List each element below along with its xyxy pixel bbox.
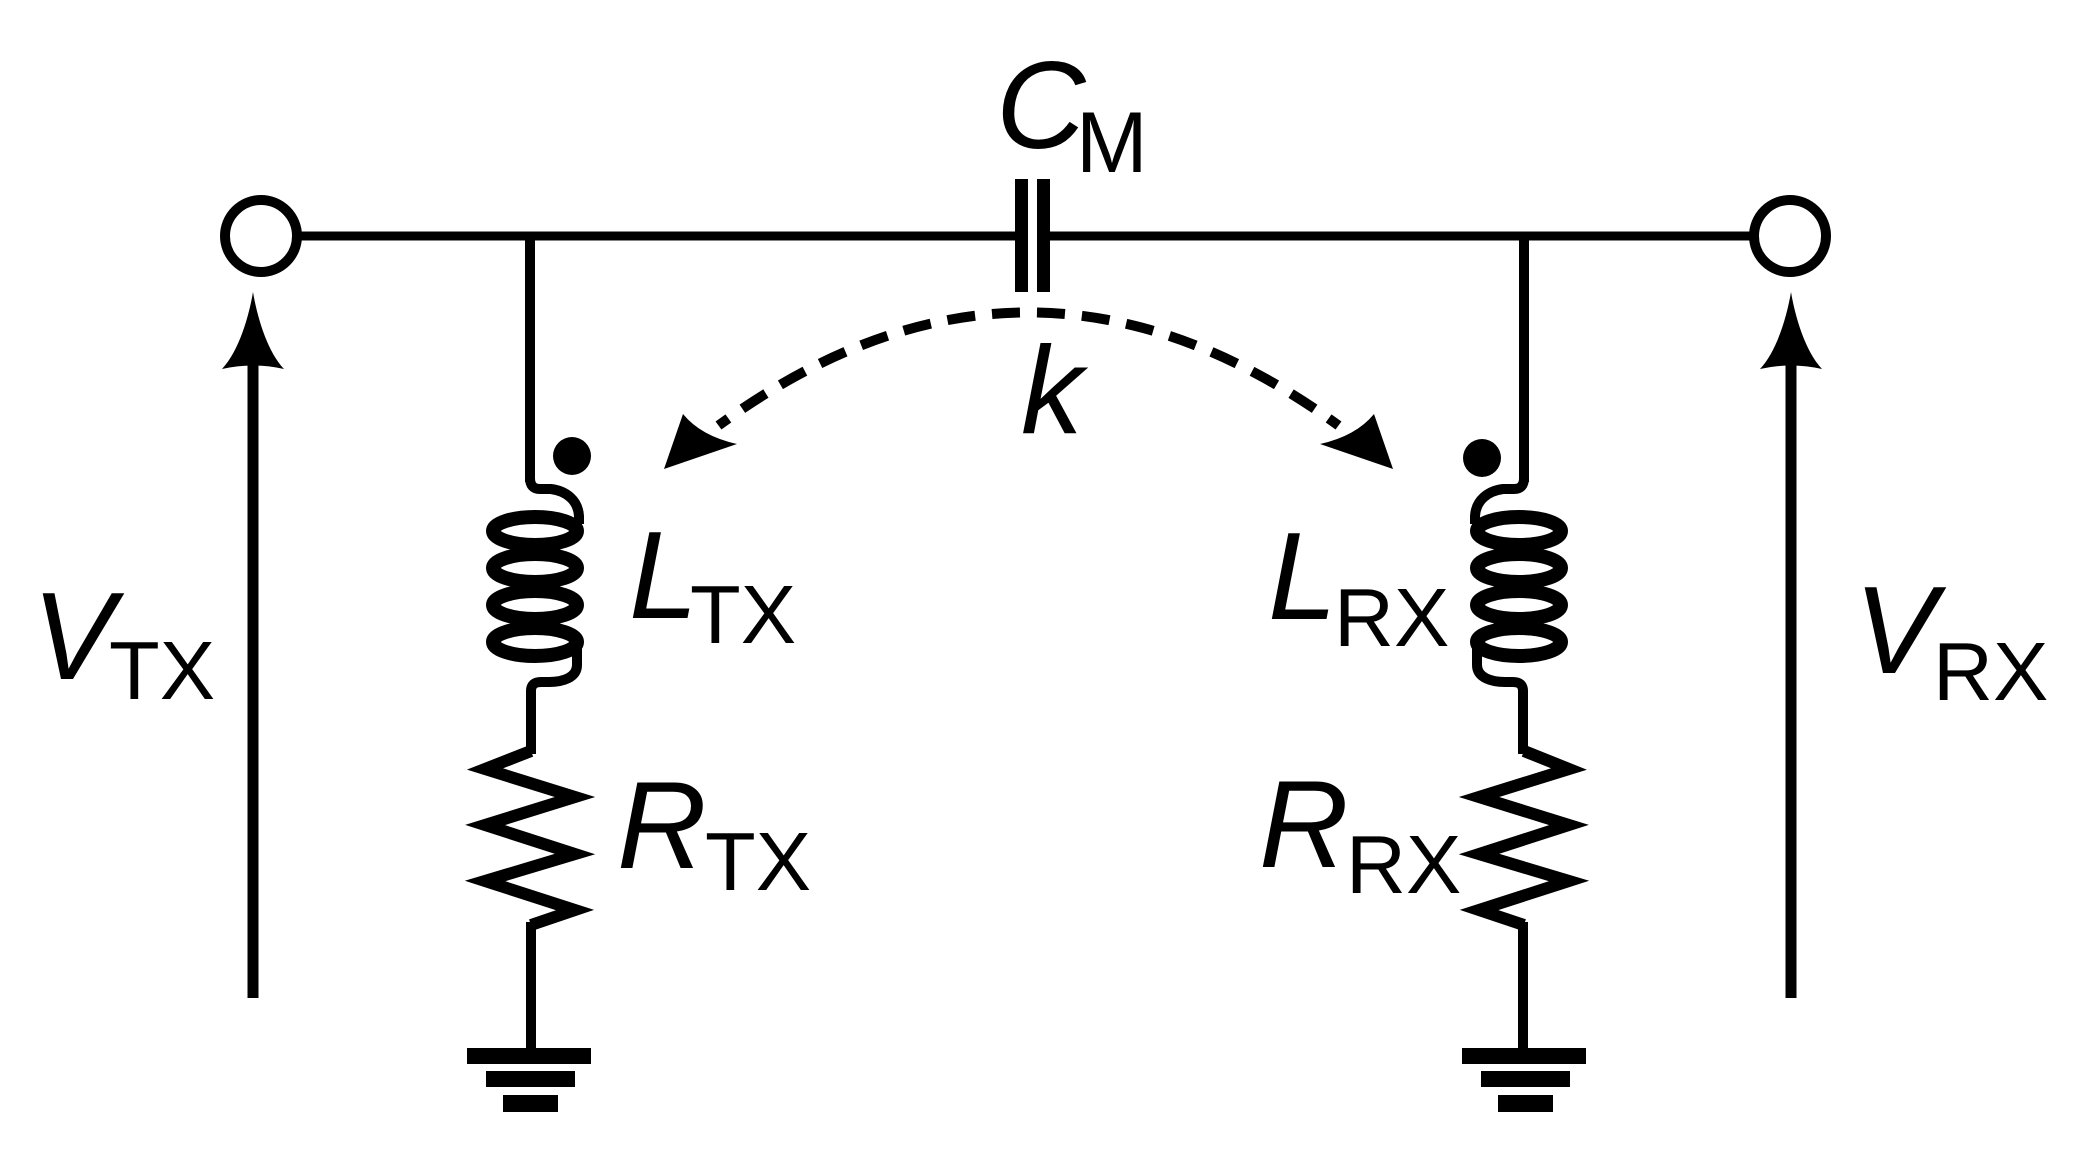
node TX port (open-circle terminal, left) [225,200,297,272]
wire: RRX to right ground [1518,922,1528,1056]
inductor LRX coil loops [1477,517,1561,656]
inductor LTX coil loops [493,517,577,656]
svg-text:RX: RX [1346,818,1461,911]
svg-text:RX: RX [1933,625,2048,718]
svg-text:M: M [1076,95,1148,191]
VTX voltage arrow shaft (left) [248,360,259,998]
VTX voltage arrowhead [222,292,284,369]
wire: LTX to RTX [526,690,536,754]
svg-text:TX: TX [690,568,796,661]
polarity dot of LRX [1463,439,1501,477]
ground (left, three-bar earth symbol) [467,1048,591,1112]
polarity dot of LTX [553,437,591,475]
inductor LRX lead hooks [1475,478,1524,694]
wire: right branch vertical from top rail to LRX [1519,232,1529,482]
coupling coefficient k: dashed mutual-inductance arc [719,312,1339,425]
svg-text:C: C [996,37,1087,175]
VRX voltage arrow shaft (right) [1786,360,1797,998]
wire: top rail, capacitor CM to right terminal [1049,232,1756,241]
svg-text:TX: TX [705,815,811,908]
svg-text:k: k [1021,322,1089,460]
capacitor CM (series plates in top rail) [1015,179,1050,292]
wire: RTX to left ground [526,922,536,1056]
VRX voltage arrowhead [1760,292,1822,369]
wire: left branch vertical from top rail to LTX [525,232,535,482]
svg-text:RX: RX [1334,571,1449,664]
svg-text:TX: TX [109,624,215,717]
wire: LRX to RRX [1518,690,1528,754]
svg-text:R: R [1259,756,1349,894]
node RX port (open-circle terminal, right) [1754,200,1826,272]
inductor LTX lead hooks [530,478,579,694]
resistor RTX (zigzag) [485,751,575,925]
svg-text:L: L [1268,508,1337,646]
ground (right, three-bar earth symbol) [1462,1048,1586,1112]
svg-text:R: R [617,757,707,895]
arrowhead: left end of k arc [664,414,737,469]
arrowhead: right end of k arc [1320,414,1393,469]
resistor RRX (zigzag) [1479,751,1569,925]
svg-text:L: L [629,507,698,645]
wire: top rail, left terminal to capacitor CM [296,232,1016,241]
